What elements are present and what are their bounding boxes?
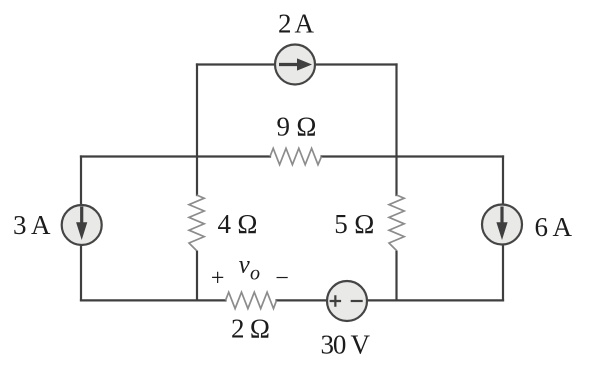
resistor R 4-ohm zigzag [189, 195, 204, 251]
resistor R 9-ohm zigzag [270, 148, 322, 164]
wire left vertical (3A branch) [80, 157, 82, 301]
svg-text:2 Ω: 2 Ω [231, 314, 270, 344]
current source I2 3A arrow [76, 207, 87, 241]
svg-text:−: − [275, 266, 289, 292]
resistor R 2-ohm zigzag [226, 292, 277, 308]
wire bottom horizontal left of 2-ohm [81, 299, 226, 301]
voltage source V1 30V circle [327, 281, 367, 321]
current source I2 3A circle [62, 205, 102, 245]
wire right vertical (6A branch) [502, 157, 504, 301]
wire lower of 4-ohm branch [196, 251, 198, 301]
svg-text:6 A: 6 A [535, 212, 573, 242]
voltage source V1 plus symbol [330, 295, 342, 307]
svg-text:2 A: 2 A [278, 9, 315, 39]
resistor R 5-ohm zigzag [389, 195, 404, 251]
svg-text:30 V: 30 V [321, 330, 371, 360]
svg-text:o: o [250, 263, 260, 285]
wire bottom horizontal right of 2-ohm [277, 299, 504, 301]
svg-text:5 Ω: 5 Ω [334, 209, 374, 239]
wire lower of 5-ohm branch [395, 251, 397, 301]
voltage source V1 minus symbol [351, 300, 363, 302]
wire top horizontal (2A branch) [197, 63, 397, 65]
current source I1 2A arrow [279, 58, 312, 70]
current source I1 2A circle [275, 45, 315, 85]
svg-text:4 Ω: 4 Ω [218, 209, 258, 239]
wire middle horizontal left of 9-ohm [81, 155, 270, 157]
current source I3 6A circle [482, 205, 522, 245]
current source I3 6A arrow [496, 207, 507, 241]
wire upper of 5-ohm branch [395, 65, 397, 196]
svg-text:3 A: 3 A [13, 210, 51, 240]
svg-text:9 Ω: 9 Ω [277, 112, 317, 142]
wire middle horizontal right of 9-ohm [322, 155, 504, 157]
wire left vertical upper of 4-ohm branch [196, 65, 198, 196]
svg-text:+: + [211, 266, 225, 292]
svg-text:v: v [239, 252, 251, 279]
